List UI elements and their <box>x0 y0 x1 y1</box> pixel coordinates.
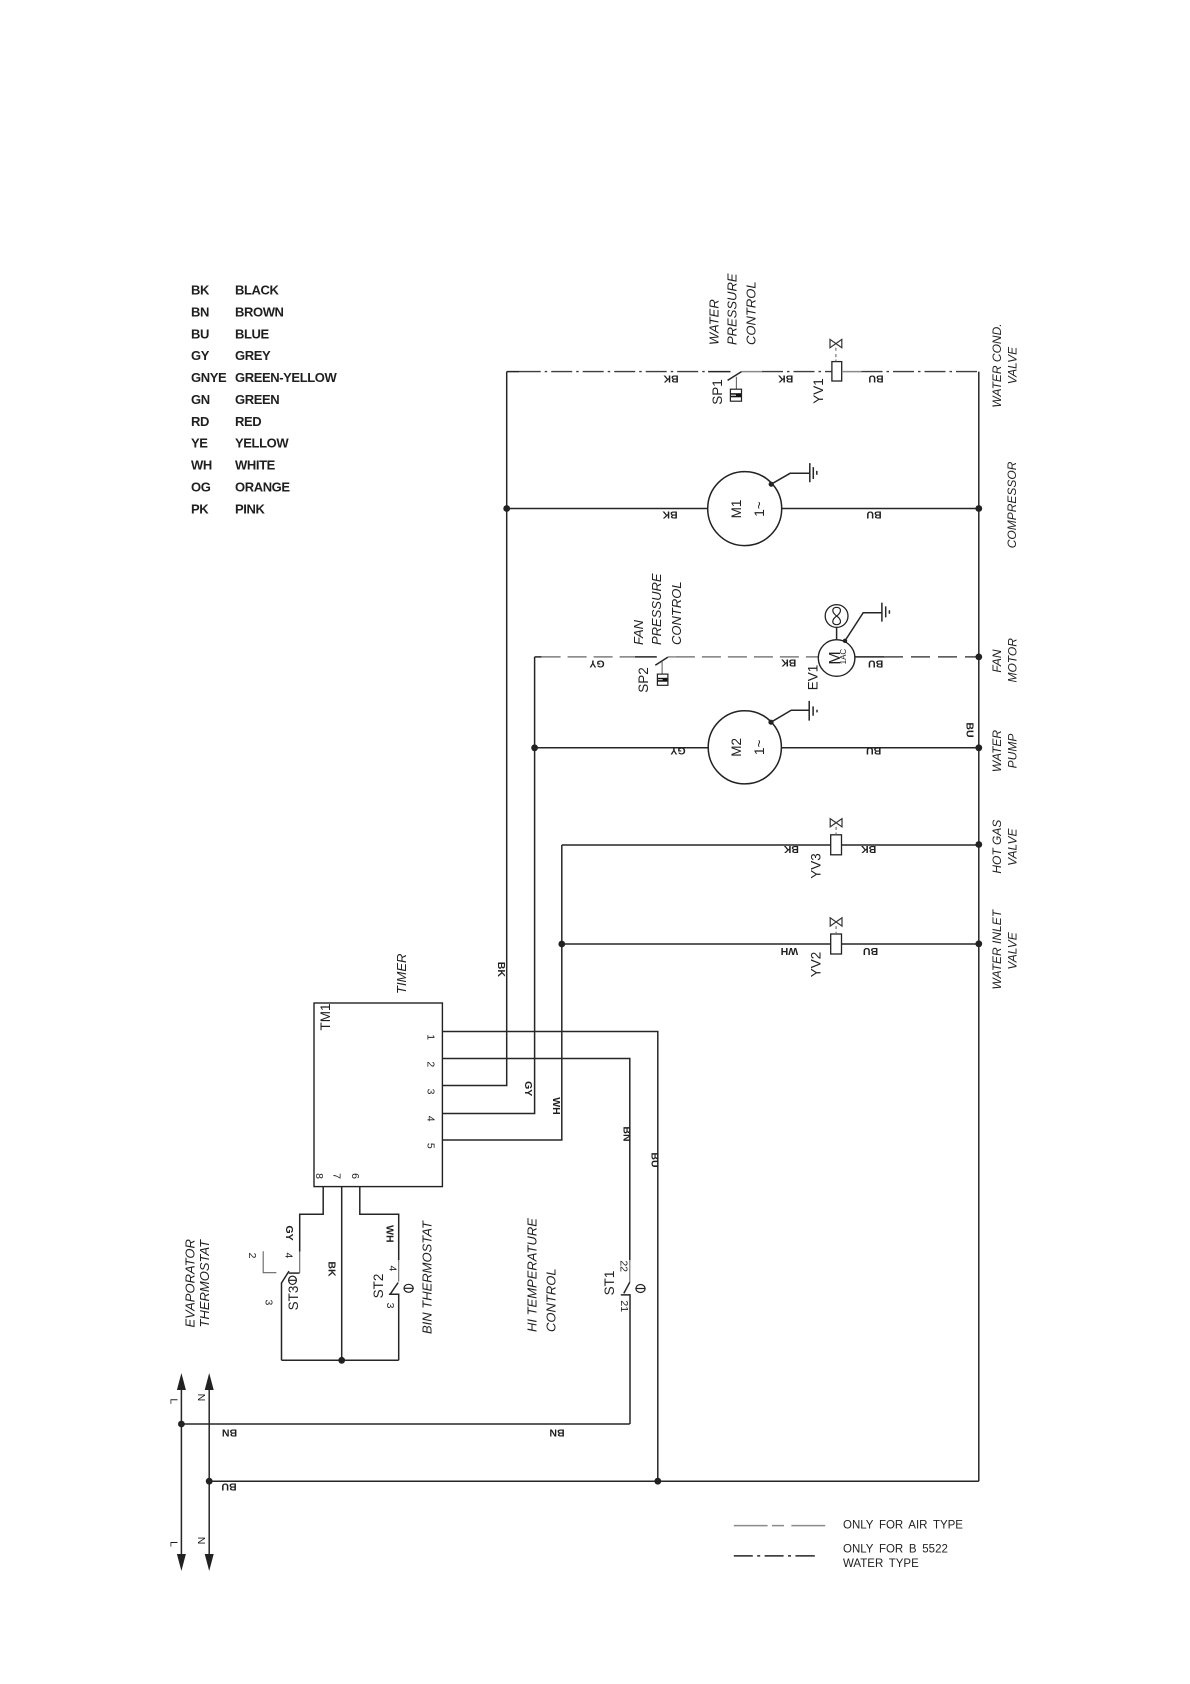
svg-text:RD: RD <box>191 414 209 429</box>
svg-text:GREEN-YELLOW: GREEN-YELLOW <box>235 370 337 385</box>
svg-text:22: 22 <box>618 1260 630 1272</box>
wire YV2 valve link dashed <box>835 926 837 934</box>
wire BN bottom line <box>181 1423 629 1425</box>
svg-text:YELLOW: YELLOW <box>235 436 289 451</box>
wire row1 dash-dot left segment <box>507 371 520 373</box>
svg-text:GY: GY <box>589 657 604 669</box>
svg-text:BK: BK <box>191 283 210 298</box>
svg-text:GN: GN <box>191 392 210 407</box>
svg-text:BU: BU <box>868 373 883 385</box>
svg-text:N: N <box>195 1537 207 1545</box>
svg-text:3: 3 <box>425 1089 437 1095</box>
junction dot L-BN <box>178 1421 185 1428</box>
svg-text:COMPRESSOR: COMPRESSOR <box>1005 461 1019 548</box>
svg-text:L: L <box>167 1541 179 1547</box>
svg-text:ORANGE: ORANGE <box>235 480 290 495</box>
svg-text:WATER INLET: WATER INLET <box>990 908 1004 989</box>
wire YV1 valve link dashed <box>835 348 837 362</box>
svg-text:GREEN: GREEN <box>235 392 279 407</box>
ground M2 <box>768 701 817 725</box>
svg-text:7: 7 <box>330 1173 342 1179</box>
svg-text:SP1: SP1 <box>710 379 725 405</box>
svg-text:FAN: FAN <box>631 619 646 645</box>
svg-text:TIMER: TIMER <box>394 954 409 994</box>
legend ONLY FOR AIR TYPE <box>734 1520 964 1532</box>
svg-text:1~: 1~ <box>752 501 767 517</box>
svg-text:4: 4 <box>386 1265 398 1271</box>
svg-text:BK: BK <box>781 656 797 668</box>
svg-text:BK: BK <box>663 373 679 385</box>
wire SP2 left terminal <box>635 656 657 658</box>
svg-text:PRESSURE: PRESSURE <box>725 273 740 345</box>
svg-text:BU: BU <box>868 657 883 669</box>
svg-text:BN: BN <box>620 1126 632 1141</box>
svg-text:8: 8 <box>313 1173 325 1179</box>
supply line L <box>177 1373 186 1571</box>
svg-text:BK: BK <box>662 509 678 521</box>
svg-text:SP2: SP2 <box>636 667 651 693</box>
svg-text:PUMP: PUMP <box>1006 734 1020 769</box>
svg-text:GY: GY <box>670 744 685 756</box>
svg-text:BU: BU <box>191 326 209 341</box>
svg-text:BROWN: BROWN <box>235 304 284 319</box>
motor M1 compressor circle <box>708 472 782 546</box>
wire pin8 stub to GY drop <box>300 1187 324 1252</box>
contact SP1 blade <box>728 372 742 381</box>
wire pin2 to BN drop <box>442 1059 629 1261</box>
svg-text:YE: YE <box>191 436 208 451</box>
svg-text:BU: BU <box>866 744 881 756</box>
wire SP1 left terminal <box>708 371 730 373</box>
svg-text:1: 1 <box>425 1034 437 1040</box>
svg-text:N: N <box>195 1394 207 1402</box>
svg-text:FAN: FAN <box>990 649 1004 672</box>
svg-text:ST2: ST2 <box>371 1274 386 1299</box>
svg-text:BIN THERMOSTAT: BIN THERMOSTAT <box>420 1220 435 1334</box>
svg-text:HOT GAS: HOT GAS <box>990 820 1004 874</box>
svg-text:CONTROL: CONTROL <box>669 581 684 645</box>
junction dot right bus row5 <box>975 841 982 848</box>
wire row1 YV1 to right bus <box>842 371 862 373</box>
svg-text:M2: M2 <box>729 738 744 757</box>
svg-text:1AC: 1AC <box>839 649 848 665</box>
junction dot right bus row4 <box>975 744 982 751</box>
svg-text:GY: GY <box>522 1081 534 1096</box>
junction dot GY bus row4 <box>531 744 538 751</box>
svg-text:WH: WH <box>384 1225 396 1243</box>
valve YV3 body <box>830 819 842 827</box>
svg-text:WATER: WATER <box>990 730 1004 773</box>
svg-text:BU: BU <box>863 945 878 957</box>
svg-text:GREY: GREY <box>235 348 271 363</box>
node FAN MOTOR row label <box>990 638 1020 683</box>
node WATER PRESSURE CONTROL section label <box>707 273 759 345</box>
svg-text:BK: BK <box>861 843 877 855</box>
wire pin1 to BU drop <box>442 1032 657 1482</box>
svg-text:EV1: EV1 <box>806 665 821 691</box>
svg-text:GNYE: GNYE <box>191 370 227 385</box>
wire row5 hot gas left <box>562 844 831 846</box>
svg-text:ONLY FOR B 5522: ONLY FOR B 5522 <box>843 1544 948 1556</box>
junction dot BK common <box>338 1357 345 1364</box>
symbol ST2 theta <box>404 1284 414 1292</box>
svg-text:PINK: PINK <box>235 501 265 516</box>
svg-text:WATER: WATER <box>707 299 722 345</box>
svg-text:EVAPORATOR: EVAPORATOR <box>182 1239 197 1327</box>
svg-text:THERMOSTAT: THERMOSTAT <box>197 1239 212 1328</box>
legend ONLY FOR B 5522 WATER TYPE <box>734 1544 948 1571</box>
valve YV2 body <box>830 918 842 926</box>
coil YV1 solenoid <box>832 362 842 381</box>
svg-text:L: L <box>167 1398 179 1404</box>
wire row2 compressor left <box>507 508 708 510</box>
wire row6 to right bus <box>842 943 979 945</box>
node WATER INLET VALVE row label <box>990 908 1020 989</box>
svg-text:BK: BK <box>783 843 799 855</box>
svg-text:2: 2 <box>246 1253 258 1259</box>
svg-text:6: 6 <box>349 1173 361 1179</box>
wire pin7 BK drop <box>341 1187 343 1361</box>
wire row1 SP1 to YV1 <box>742 371 763 373</box>
symbol ST3 theta <box>288 1276 297 1284</box>
node EVAPORATOR THERMOSTAT section label <box>182 1239 212 1328</box>
wire BU bottom line <box>209 1480 979 1482</box>
junction dot right bus row6 <box>975 940 982 947</box>
svg-text:1~: 1~ <box>752 739 767 755</box>
svg-text:BK: BK <box>325 1261 337 1277</box>
wire fan to EV1 link <box>836 627 838 639</box>
svg-text:M1: M1 <box>729 500 744 519</box>
supply line N <box>205 1373 214 1571</box>
node FAN PRESSURE CONTROL section label <box>631 573 684 645</box>
junction dot WH bus row6 <box>558 941 565 948</box>
symbol ST1 theta <box>635 1285 645 1293</box>
legend wire colour table <box>191 283 337 517</box>
wire row4 pump left <box>535 747 709 749</box>
junction dot right bus row2 <box>975 505 982 512</box>
junction dot N-BU <box>206 1478 213 1485</box>
svg-text:4: 4 <box>283 1252 295 1258</box>
svg-text:BN: BN <box>191 304 209 319</box>
svg-text:3: 3 <box>384 1303 396 1309</box>
svg-text:BN: BN <box>222 1427 237 1439</box>
wire SP1 capsule link <box>735 377 737 389</box>
node WATER PUMP row label <box>990 730 1020 773</box>
node WATER COND. VALVE row label <box>990 323 1020 407</box>
svg-text:ST1: ST1 <box>602 1271 617 1296</box>
contact ST1 over-temperature <box>621 1260 630 1424</box>
coil YV2 solenoid <box>831 934 842 954</box>
svg-text:5: 5 <box>425 1143 437 1149</box>
svg-text:WH: WH <box>191 458 212 473</box>
wire row3 EV1 to right bus <box>855 656 884 658</box>
ground M1 <box>769 463 817 487</box>
svg-text:WATER TYPE: WATER TYPE <box>843 1558 919 1570</box>
valve YV1 body <box>830 339 842 347</box>
svg-text:BLUE: BLUE <box>235 326 270 341</box>
svg-text:VALVE: VALVE <box>1006 828 1020 866</box>
wire thermostat common bottom <box>282 1359 399 1361</box>
svg-text:WH: WH <box>550 1097 562 1115</box>
svg-text:BU: BU <box>221 1481 236 1493</box>
svg-text:PRESSURE: PRESSURE <box>649 573 664 645</box>
svg-text:BK: BK <box>495 962 507 978</box>
svg-text:2: 2 <box>425 1061 437 1067</box>
junction dot BK bus row2 <box>503 505 510 512</box>
svg-text:3: 3 <box>263 1299 275 1305</box>
wire GY bus left vertical <box>442 657 534 1114</box>
component SP1 pressure capsule <box>730 389 741 401</box>
contact ST2 bin thermostat <box>389 1260 399 1360</box>
coil YV3 solenoid <box>831 835 842 855</box>
svg-text:WH: WH <box>781 945 799 957</box>
motor EV1 fan circle <box>818 640 855 677</box>
junction dot right bus row3 <box>975 654 982 661</box>
svg-text:MOTOR: MOTOR <box>1006 638 1020 683</box>
svg-text:CONTROL: CONTROL <box>544 1268 559 1332</box>
wire row6 inlet left <box>562 943 831 945</box>
component SP2 pressure capsule <box>657 674 668 685</box>
svg-text:BLACK: BLACK <box>235 283 280 298</box>
wire row2 compressor right <box>782 508 979 510</box>
svg-text:YV3: YV3 <box>809 853 824 879</box>
svg-text:YV2: YV2 <box>809 952 824 978</box>
svg-text:YV1: YV1 <box>811 378 826 404</box>
wire row3 SP2 to EV1 <box>668 656 676 658</box>
svg-text:GY: GY <box>191 348 210 363</box>
node HOT GAS VALVE row label <box>990 820 1020 874</box>
svg-text:BU: BU <box>964 722 976 737</box>
junction dot BU drop joins BU line <box>654 1478 661 1485</box>
svg-text:RED: RED <box>235 414 261 429</box>
svg-text:VALVE: VALVE <box>1006 931 1020 969</box>
motor M2 pump circle <box>708 711 781 784</box>
svg-text:ST3: ST3 <box>286 1286 301 1311</box>
svg-text:21: 21 <box>618 1300 630 1312</box>
node HI TEMPERATURE CONTROL section label <box>525 1218 559 1332</box>
wire right bus vertical <box>978 372 980 1482</box>
wire row3 fan dashed left <box>535 656 542 658</box>
svg-text:BU: BU <box>648 1152 660 1167</box>
svg-text:OG: OG <box>191 480 211 495</box>
fan propeller symbol <box>825 605 848 628</box>
svg-text:BN: BN <box>549 1427 564 1439</box>
svg-text:4: 4 <box>425 1116 437 1122</box>
svg-text:ONLY FOR AIR TYPE: ONLY FOR AIR TYPE <box>843 1520 963 1532</box>
svg-text:BU: BU <box>866 509 881 521</box>
svg-text:VALVE: VALVE <box>1006 346 1020 384</box>
contact SP2 blade <box>655 657 668 665</box>
contact ST3 evaporator thermostat <box>263 1251 300 1360</box>
svg-text:PK: PK <box>191 501 209 516</box>
wire YV3 valve link dashed <box>835 827 837 835</box>
svg-text:HI TEMPERATURE: HI TEMPERATURE <box>525 1218 540 1332</box>
wire row4 pump right <box>781 747 978 749</box>
ground EV1 <box>843 603 890 643</box>
wire WH bus left vertical <box>442 845 561 1140</box>
wire pin6 stub to WH drop <box>360 1187 399 1261</box>
svg-text:GY: GY <box>283 1226 295 1241</box>
svg-text:CONTROL: CONTROL <box>744 281 759 345</box>
timer TM1 box <box>314 1003 442 1187</box>
svg-text:WHITE: WHITE <box>235 458 276 473</box>
wire row5 to right bus <box>842 844 979 846</box>
wire SP2 capsule link <box>661 662 663 674</box>
wire BK bus left vertical <box>442 372 506 1086</box>
svg-text:BK: BK <box>778 373 794 385</box>
svg-text:WATER COND.: WATER COND. <box>990 323 1004 407</box>
svg-text:TM1: TM1 <box>318 1004 333 1031</box>
